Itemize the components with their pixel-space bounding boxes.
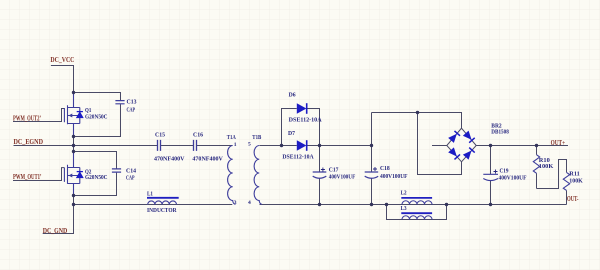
svg-text:C19: C19 <box>500 167 510 174</box>
wire C16 to T1A pin1 <box>197 145 232 147</box>
junction C19 bottom <box>489 203 492 206</box>
wire PWM_OUT1 to Q2 gate <box>13 168 64 181</box>
capacitor C15 <box>158 140 161 151</box>
junction C19 top <box>489 144 492 147</box>
resistor R11 <box>563 172 569 190</box>
capacitor C14 <box>112 169 121 172</box>
capacitor C13 <box>115 101 124 104</box>
wire DC_VCC stub and left rail top <box>51 66 74 108</box>
svg-text:470NF400V: 470NF400V <box>154 156 185 163</box>
wire T1B pin5 to D7 anode <box>260 145 297 147</box>
wire C13 loop <box>74 93 121 137</box>
transistor Q1 <box>64 93 79 137</box>
svg-text:100K: 100K <box>569 177 583 184</box>
wire R10 stubs <box>536 146 538 189</box>
junction DC_EGND on midpoint rail <box>72 144 75 147</box>
svg-text:400V100UF: 400V100UF <box>499 175 527 182</box>
wire C14 loop <box>74 152 117 196</box>
capacitor C16 <box>194 140 197 151</box>
svg-text:T1B: T1B <box>252 134 261 141</box>
junction C17 bottom <box>318 203 321 206</box>
svg-text:DSE112-10A: DSE112-10A <box>282 153 313 160</box>
junction L2/L3 left <box>385 203 388 206</box>
wire D6 bypass branch <box>282 109 320 146</box>
svg-text:DC_VCC: DC_VCC <box>50 55 74 64</box>
BR2 diode bottom-left <box>448 147 460 159</box>
junction D6 branch left <box>280 144 283 147</box>
diode D7 <box>297 140 307 150</box>
svg-text:OUT-: OUT- <box>567 194 579 203</box>
svg-text:D6: D6 <box>289 92 297 99</box>
svg-text:3: 3 <box>234 200 237 206</box>
svg-text:100K: 100K <box>539 163 554 170</box>
svg-text:G20N50C: G20N50C <box>85 113 108 120</box>
wire top rail to bridge top corner <box>372 113 462 129</box>
junction C14 feed on midpoint rail <box>72 150 75 153</box>
capacitor C17 <box>313 172 327 178</box>
svg-text:C16: C16 <box>193 132 204 139</box>
svg-text:L2: L2 <box>401 190 408 197</box>
svg-text:C15: C15 <box>155 132 166 139</box>
bridge rectifier BR2 body <box>447 128 476 162</box>
wire R11 bottom stub <box>566 191 568 205</box>
capacitor C18 <box>365 172 379 178</box>
resistor R10 <box>533 155 539 174</box>
C18 polarity plus <box>373 167 377 171</box>
svg-text:CAP: CAP <box>126 175 135 182</box>
svg-text:T1A: T1A <box>227 134 236 141</box>
transistor Q2 <box>64 152 79 196</box>
svg-text:D7: D7 <box>288 130 296 137</box>
BR2 diode top-left <box>448 131 460 143</box>
svg-text:DB1508: DB1508 <box>491 129 509 136</box>
svg-text:400V100UF: 400V100UF <box>380 173 408 180</box>
wire bridge right stub to OUT+ <box>476 145 568 147</box>
transformer T1 secondary winding T1B <box>254 146 262 205</box>
wire Q1 source to Q2 drain rail <box>73 124 75 168</box>
junction D6 branch right / C17 top <box>318 144 321 147</box>
Q1 body diode <box>77 112 83 118</box>
C19 polarity plus <box>494 170 498 174</box>
junction L2/L3 right <box>445 203 448 206</box>
BR2 diode bottom-right <box>463 148 475 160</box>
svg-text:DC_GND: DC_GND <box>43 226 68 235</box>
svg-text:OUT+: OUT+ <box>551 138 566 147</box>
wire C18 vertical <box>371 113 373 205</box>
inductor L2 <box>401 197 432 199</box>
svg-text:PWM_OUT2’: PWM_OUT2’ <box>13 113 41 122</box>
junction C14 return on source rail <box>72 194 75 197</box>
junction L1 wire on source rail <box>72 203 75 206</box>
capacitor C19 <box>483 174 498 180</box>
wire PWM_OUT2 to Q1 gate <box>13 109 64 122</box>
svg-text:DC_EGND: DC_EGND <box>14 137 44 146</box>
inductor L1 <box>147 197 179 199</box>
junction hook on top rail <box>416 111 419 114</box>
wire bottom primary run to L1 <box>74 204 148 206</box>
svg-text:C18: C18 <box>380 165 390 172</box>
junction Q1 drain / C13 top <box>72 91 75 94</box>
junction R10 top <box>535 144 538 147</box>
svg-text:CAP: CAP <box>127 107 136 114</box>
inductor L3 <box>401 212 432 214</box>
junction C13 return on midpoint rail <box>72 135 75 138</box>
svg-text:4: 4 <box>248 200 251 206</box>
wire bridge left stub <box>432 145 447 147</box>
wire hook from rail to bridge bottom corner <box>418 113 462 175</box>
BR2 diode top-right <box>463 131 475 143</box>
wire DC_EGND run to C15 <box>14 145 158 147</box>
wire bottom secondary run to OUT- <box>260 204 567 206</box>
svg-text:1: 1 <box>234 142 237 148</box>
svg-text:DSE112-10A: DSE112-10A <box>289 117 322 124</box>
C17 polarity plus <box>321 168 325 172</box>
wire D7 cathode to C18 top junction <box>307 145 372 147</box>
svg-text:PWM_OUT1’: PWM_OUT1’ <box>13 172 42 181</box>
wire Q2 source to DC_GND <box>43 184 74 234</box>
wire R10 to R11 link <box>537 160 567 189</box>
junction C18 top <box>370 144 373 147</box>
Q2 body diode <box>77 172 83 178</box>
svg-text:C13: C13 <box>127 98 138 105</box>
svg-text:G20N50C: G20N50C <box>85 174 108 181</box>
svg-text:C14: C14 <box>126 167 137 174</box>
wire L1 to T1A pin3 <box>148 204 233 206</box>
wire C19 vertical <box>490 146 492 205</box>
svg-text:L1: L1 <box>147 190 153 197</box>
wire C15 to C16 <box>161 145 193 147</box>
wire L3 branch <box>387 205 447 220</box>
diode D6 <box>297 103 307 113</box>
svg-text:470NF400V: 470NF400V <box>192 156 223 163</box>
svg-text:INDUCTOR: INDUCTOR <box>147 207 177 214</box>
transformer T1 primary winding T1A <box>228 146 236 205</box>
svg-text:400V100UF: 400V100UF <box>329 174 356 181</box>
svg-text:L3: L3 <box>401 205 408 212</box>
svg-text:5: 5 <box>248 142 251 148</box>
junction C18 bottom <box>370 203 373 206</box>
wire C17 vertical <box>319 146 321 205</box>
